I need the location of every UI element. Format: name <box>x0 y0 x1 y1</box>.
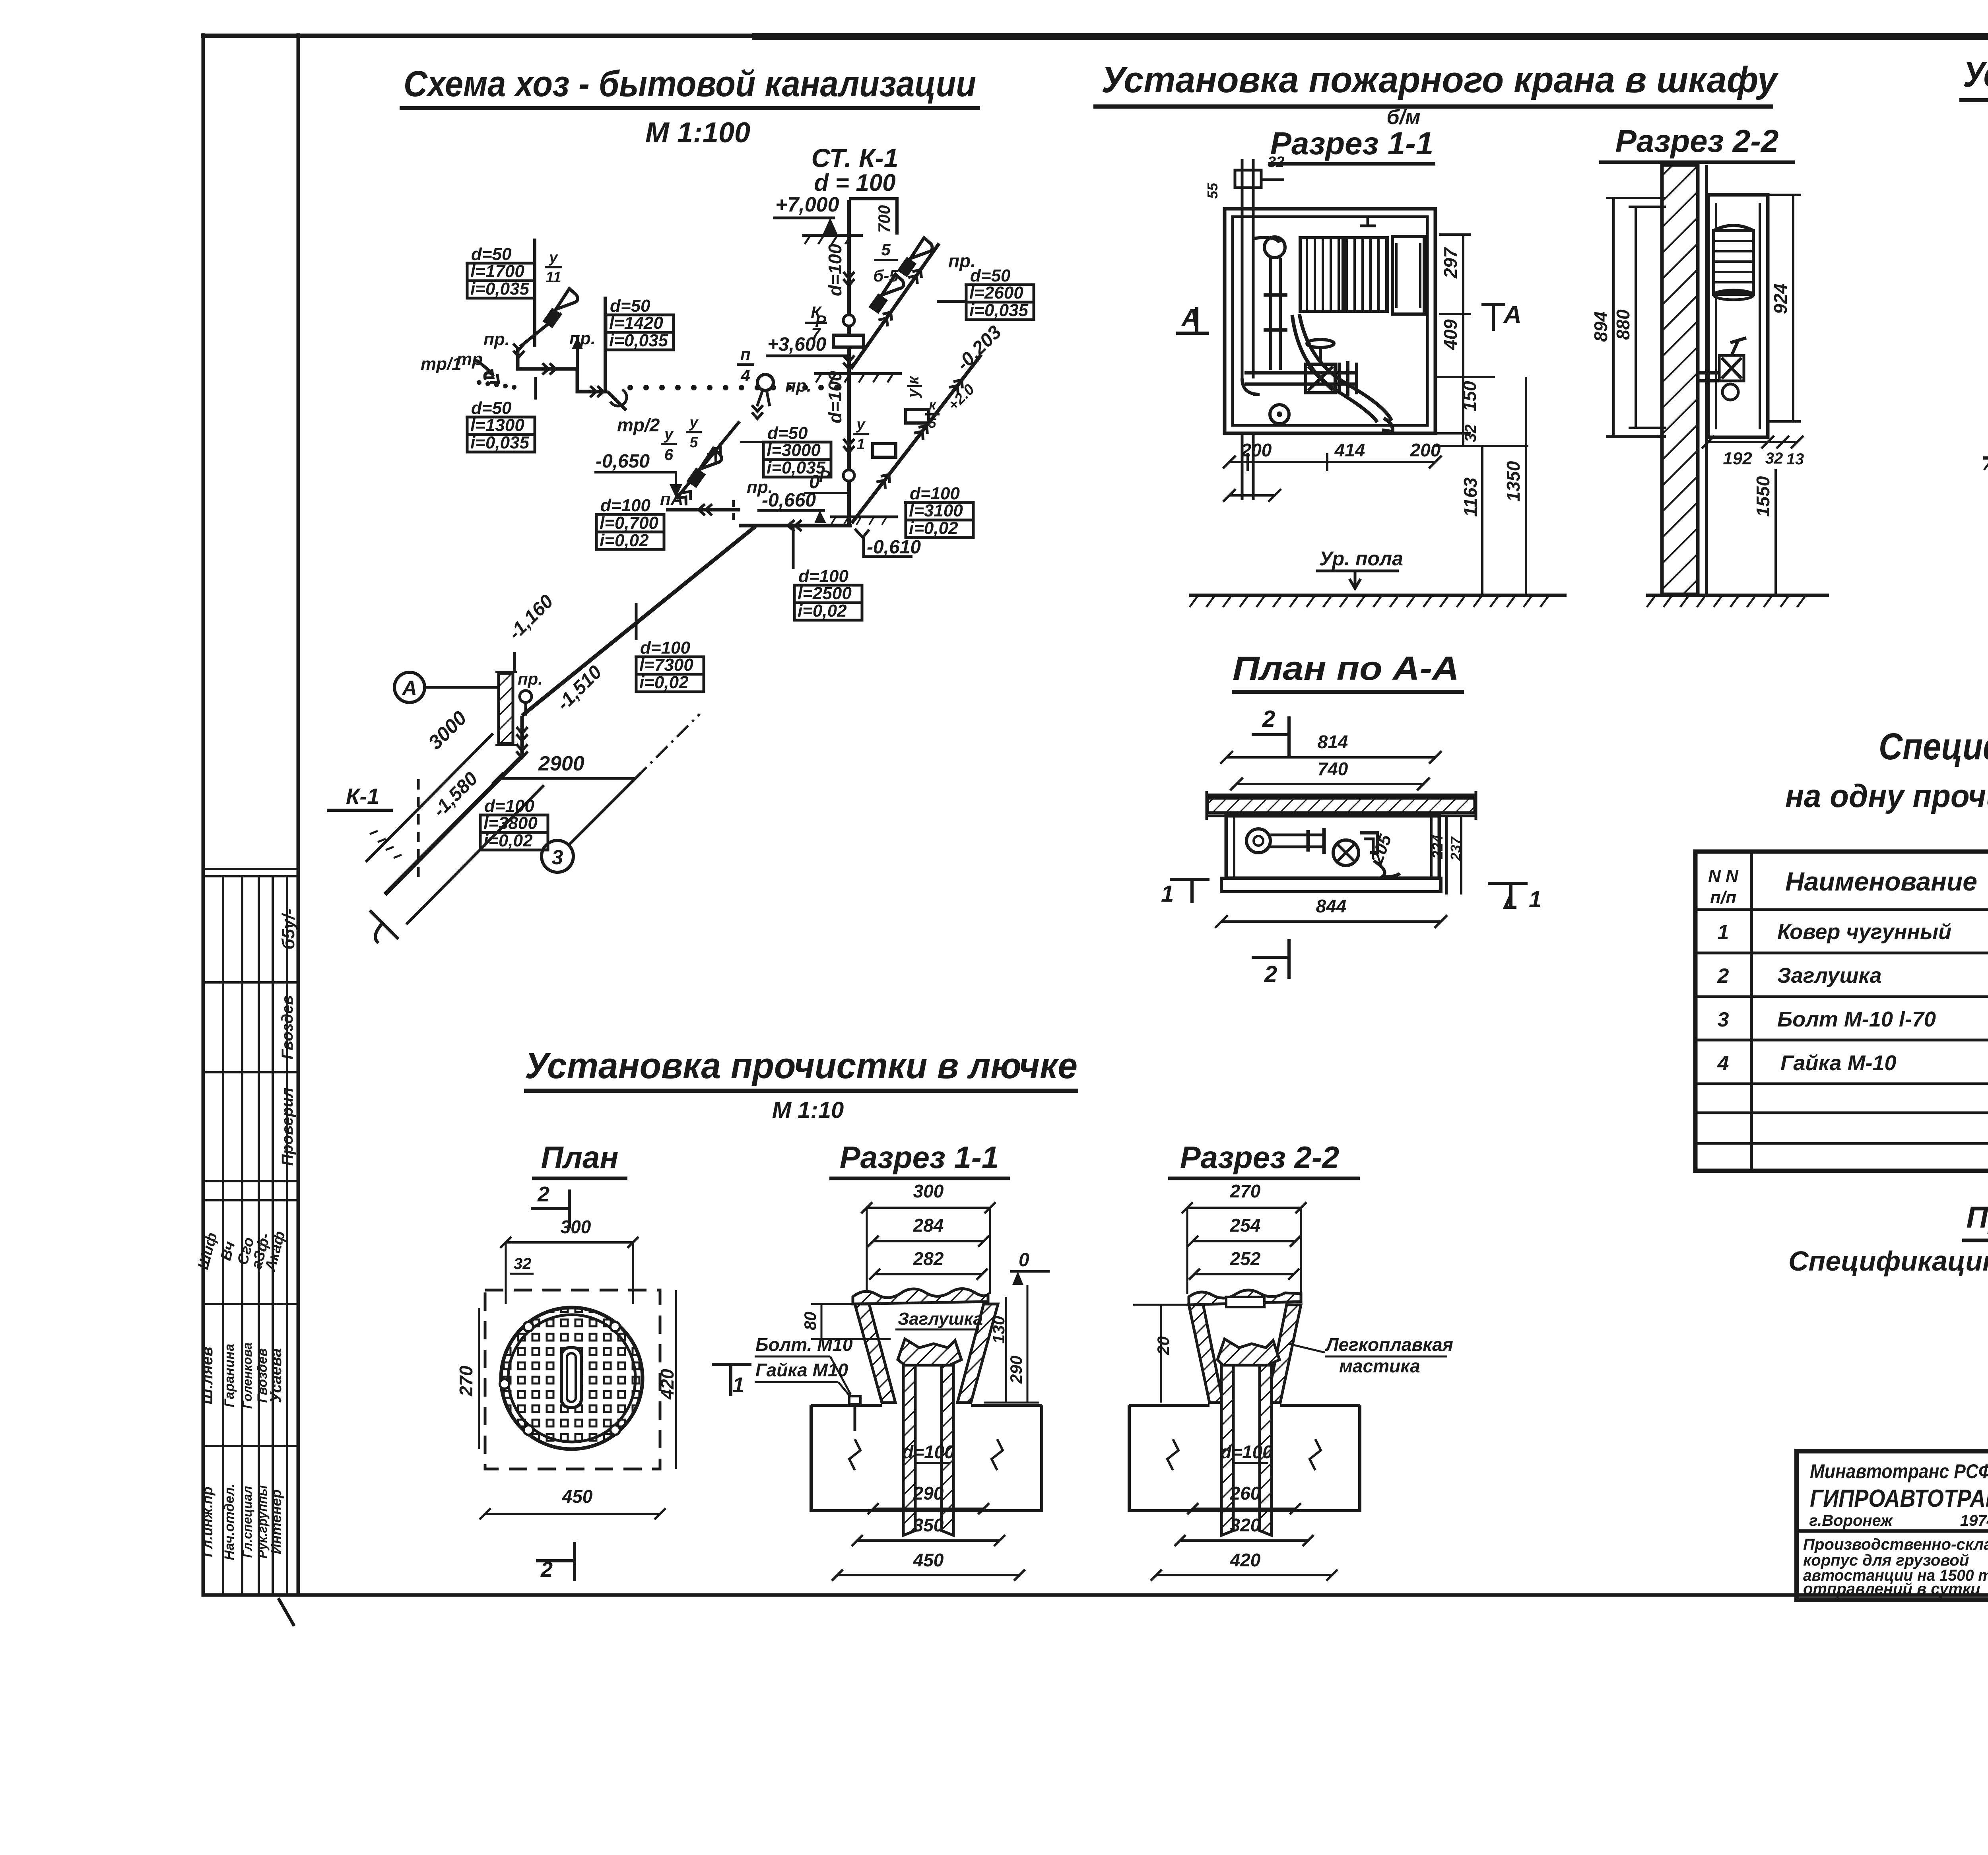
horizontal pipe to valve <box>1244 371 1356 374</box>
dots to junction <box>477 380 481 385</box>
svg-text:11: 11 <box>546 269 561 286</box>
dim 420 plan right <box>675 1290 677 1469</box>
svg-text:Спецификацию см. лист ВК: Спецификацию см. лист ВК-6 <box>1788 1246 1988 1277</box>
node 3 circle with leader <box>568 778 635 846</box>
pipe below cabinet <box>1241 433 1244 500</box>
svg-text:320: 320 <box>1230 1515 1261 1535</box>
drop and second horizontal <box>577 369 608 392</box>
bottom dims 192 32 13 <box>1708 441 1768 443</box>
main collector diagonal <box>522 526 755 716</box>
svg-text:i=0,02: i=0,02 <box>909 518 958 538</box>
svg-text:Гайка М-10: Гайка М-10 <box>1780 1051 1897 1075</box>
svg-text:А: А <box>1503 301 1522 328</box>
svg-text:814: 814 <box>1318 732 1348 752</box>
trench line left <box>366 733 493 862</box>
svg-text:l=1700: l=1700 <box>470 262 524 281</box>
svg-text:844: 844 <box>1316 896 1347 916</box>
floor line level 0 <box>830 516 898 518</box>
dim box 700 <box>849 199 897 235</box>
cabinet inner box <box>1233 217 1427 425</box>
svg-text:2: 2 <box>1717 964 1729 988</box>
svg-text:l=1420: l=1420 <box>609 313 663 333</box>
strip row dividers <box>203 981 298 984</box>
revision box on stack <box>833 335 864 347</box>
floor line level 3.600 <box>814 372 902 375</box>
svg-text:290: 290 <box>1007 1356 1025 1384</box>
strip bottom signature squiggle <box>278 1598 294 1626</box>
svg-text:Болт М-10 l-70: Болт М-10 l-70 <box>1777 1007 1936 1031</box>
hatch ticks on trench <box>370 831 378 834</box>
svg-text:Болт. М10: Болт. М10 <box>755 1334 853 1355</box>
valve handwheel <box>1319 347 1322 364</box>
dashed square <box>485 1290 660 1469</box>
svg-text:А: А <box>401 677 417 700</box>
svg-text:у: у <box>548 249 558 266</box>
fraction p/4 <box>737 345 754 385</box>
elbow fitting upper <box>1264 237 1285 258</box>
fixtures above -0.650 <box>689 448 722 486</box>
svg-text:тр/1: тр/1 <box>421 354 462 374</box>
svg-text:192: 192 <box>1723 449 1752 468</box>
frame outer left border <box>202 35 205 1595</box>
svg-text:Разрез 1-1: Разрез 1-1 <box>1270 126 1434 161</box>
cabinet plan box <box>1226 816 1439 878</box>
callout d50-l1700 <box>466 244 535 299</box>
cabinet side box <box>1708 195 1768 437</box>
wall strip plan <box>1207 794 1476 797</box>
ground line C <box>1983 456 1988 460</box>
extinguisher box <box>1392 237 1424 314</box>
svg-text:200: 200 <box>1410 440 1441 460</box>
svg-text:1: 1 <box>1718 921 1729 944</box>
svg-text:i=0,035: i=0,035 <box>609 331 668 350</box>
callout d50-l2600 <box>965 266 1034 320</box>
svg-text:Интенер: Интенер <box>268 1490 284 1554</box>
svg-text:55: 55 <box>1204 182 1221 199</box>
svg-text:ГИПРОАВТОТРАНС: ГИПРОАВТОТРАНС <box>1810 1485 1988 1512</box>
vent riser with pr <box>576 337 579 369</box>
svg-text:l=2600: l=2600 <box>969 283 1023 303</box>
svg-text:252: 252 <box>1230 1248 1261 1269</box>
short branch diagonal above -0.650 <box>676 421 740 499</box>
svg-text:l=0,700: l=0,700 <box>600 513 659 533</box>
svg-text:d=100: d=100 <box>798 567 849 586</box>
hose shelf hatched left <box>1300 238 1343 311</box>
right dims 297 409 150 32 <box>1439 233 1471 236</box>
fire valve body <box>1308 367 1333 390</box>
frame bottom border <box>203 1593 1988 1597</box>
dims left 894 880 <box>1612 198 1615 437</box>
svg-text:450: 450 <box>913 1550 944 1570</box>
svg-text:740: 740 <box>1318 759 1348 779</box>
frame top border <box>203 34 1988 38</box>
svg-text:Ковер чугунный: Ковер чугунный <box>1777 920 1951 944</box>
svg-text:d=50: d=50 <box>970 266 1011 285</box>
svg-text:у: у <box>856 416 866 433</box>
svg-text:Заглушка: Заглушка <box>1777 964 1882 988</box>
revision box branch2 b <box>873 444 896 457</box>
outfall diagonal <box>385 756 522 895</box>
cabinet outer box <box>1225 209 1435 433</box>
svg-text:3: 3 <box>552 846 563 869</box>
dotted line <box>627 385 633 390</box>
callout d100 l7300 <box>635 603 638 640</box>
svg-text:i=0,02: i=0,02 <box>483 831 533 850</box>
svg-text:32: 32 <box>1462 425 1479 442</box>
fixture umyvalnik 11 <box>545 289 578 326</box>
svg-text:2: 2 <box>1264 961 1277 987</box>
svg-text:Ур. пола: Ур. пола <box>1319 547 1403 570</box>
svg-text:у|к: у|к <box>905 376 922 398</box>
svg-text:4: 4 <box>1717 1052 1729 1075</box>
svg-text:i=0,02: i=0,02 <box>639 673 689 692</box>
svg-text:+7,000: +7,000 <box>775 193 839 216</box>
svg-text:282: 282 <box>913 1248 944 1269</box>
manhole cover circle <box>501 1308 643 1449</box>
svg-text:d=50: d=50 <box>767 423 808 443</box>
svg-text:п/п: п/п <box>1710 888 1736 907</box>
svg-text:13: 13 <box>1786 450 1804 468</box>
svg-text:+3,600: +3,600 <box>767 334 826 355</box>
trench line right <box>406 785 544 924</box>
fixture at dotted end <box>757 374 773 390</box>
svg-text:150: 150 <box>1459 381 1480 411</box>
local horizontal pipe piece <box>666 508 740 512</box>
wall column hatched <box>1662 165 1698 594</box>
svg-text:Спецификация: Спецификация <box>1879 726 1988 768</box>
svg-text:924: 924 <box>1770 283 1791 314</box>
cover top wavy band <box>853 1288 988 1304</box>
frame top border smudge <box>755 33 1988 40</box>
svg-text:Гаранина: Гаранина <box>222 1344 237 1407</box>
spec table grid <box>1695 852 1988 1171</box>
svg-text:5: 5 <box>881 240 891 259</box>
svg-text:i=0,02: i=0,02 <box>600 531 649 550</box>
svg-text:894: 894 <box>1590 311 1611 342</box>
svg-text:d=100: d=100 <box>902 1442 955 1462</box>
horizontal waste pipe <box>518 347 577 369</box>
callout d50-l1300 <box>466 398 535 452</box>
svg-text:300: 300 <box>913 1181 944 1201</box>
dim chain bottom <box>1229 461 1435 463</box>
cover band 2-2 <box>1189 1290 1301 1305</box>
fixture on branch 1 <box>871 274 904 312</box>
svg-text:1550: 1550 <box>1753 476 1773 517</box>
svg-text:отправлений в сутки: отправлений в сутки <box>1803 1580 1980 1598</box>
svg-text:на одну прочистку в лючке: на одну прочистку в лючке <box>1785 778 1988 814</box>
slab <box>811 1405 1042 1511</box>
level -0.610 flag <box>855 529 869 537</box>
trench end cap <box>370 910 398 943</box>
dims right 130 290 rotated <box>1005 1297 1007 1403</box>
vertical dim 1163 <box>1481 446 1483 594</box>
strip column lines <box>222 876 224 1595</box>
svg-text:700: 700 <box>875 205 893 233</box>
svg-text:32: 32 <box>1765 450 1783 467</box>
hose roll side view <box>1714 231 1753 294</box>
svg-text:Голенкова: Голенкова <box>240 1343 254 1409</box>
svg-text:-0,610: -0,610 <box>867 537 921 558</box>
hose curved down <box>1299 314 1392 421</box>
dashed drop to collector <box>732 500 735 525</box>
svg-text:мастика: мастика <box>1339 1356 1420 1376</box>
svg-text:Производственно-складск.: Производственно-складск. <box>1803 1536 1988 1553</box>
pipe walls <box>903 1365 915 1535</box>
svg-text:1350: 1350 <box>1503 461 1524 502</box>
svg-text:d=100: d=100 <box>640 638 691 658</box>
svg-text:d=100: d=100 <box>825 244 845 296</box>
dim 80 left rotated <box>821 1304 823 1339</box>
svg-text:300: 300 <box>561 1217 591 1237</box>
svg-text:d=50: d=50 <box>471 398 512 418</box>
svg-text:l=2500: l=2500 <box>798 584 852 603</box>
floor line level 7.000 <box>802 234 863 237</box>
strip rotated texts <box>195 908 298 1560</box>
svg-text:270: 270 <box>1230 1181 1261 1201</box>
housing walls trapezoid <box>855 1304 895 1403</box>
svg-text:пр.: пр. <box>569 329 596 348</box>
svg-text:297: 297 <box>1440 247 1461 279</box>
svg-text:d=100: d=100 <box>600 496 651 515</box>
svg-text:130: 130 <box>989 1316 1008 1344</box>
vertical dim 1550 <box>1774 469 1777 594</box>
svg-text:409: 409 <box>1440 319 1461 350</box>
svg-text:270: 270 <box>456 1366 476 1397</box>
vertical feed to valve <box>1269 258 1272 370</box>
branch pipe lower right <box>852 355 981 523</box>
riser inside cabinet <box>1241 217 1244 378</box>
svg-text:l=1300: l=1300 <box>470 415 524 435</box>
riser line of callout 1300 <box>534 377 537 400</box>
frame inner left border <box>297 35 300 1595</box>
svg-text:тр: тр <box>456 349 483 369</box>
hose nozzle bottom <box>1382 418 1393 432</box>
svg-text:d = 100: d = 100 <box>814 169 895 196</box>
svg-text:План по А-А: План по А-А <box>1233 650 1459 687</box>
svg-text:Гл.специал: Гл.специал <box>240 1486 254 1558</box>
svg-text:2: 2 <box>537 1182 549 1206</box>
svg-text:М 1:100: М 1:100 <box>645 117 750 149</box>
callout d100-l3800 <box>479 796 548 850</box>
svg-text:тр/2: тр/2 <box>617 415 660 435</box>
drop at wall <box>520 716 524 756</box>
svg-text:l=3100: l=3100 <box>909 501 963 520</box>
svg-text:l=7300: l=7300 <box>639 655 693 675</box>
svg-text:d=50: d=50 <box>610 296 650 316</box>
svg-text:260: 260 <box>1230 1483 1261 1504</box>
svg-text:254: 254 <box>1230 1215 1261 1236</box>
trap symbol tr/2 <box>608 392 626 410</box>
svg-text:пр.: пр. <box>518 669 543 688</box>
svg-text:Ш.ляев: Ш.ляев <box>198 1347 216 1404</box>
slab break zigzags <box>849 1439 860 1470</box>
svg-text:Разрез 2-2: Разрез 2-2 <box>1180 1140 1339 1175</box>
svg-text:80: 80 <box>801 1312 819 1330</box>
svg-text:d=100: d=100 <box>825 371 845 423</box>
svg-text:880: 880 <box>1613 309 1633 340</box>
svg-text:l=3800: l=3800 <box>483 813 538 833</box>
leader for 3000 callout <box>740 441 763 443</box>
svg-text:350: 350 <box>913 1515 944 1535</box>
svg-text:20: 20 <box>1154 1336 1173 1355</box>
svg-text:-0,650: -0,650 <box>596 451 650 472</box>
svg-text:п: п <box>740 345 751 363</box>
svg-text:1974г: 1974г <box>1960 1512 1988 1529</box>
collector horizontal <box>739 524 852 528</box>
svg-text:Установка прочистки в люч: Установка прочистки в лючке <box>525 1046 1077 1086</box>
title block grid <box>1797 1451 1988 1600</box>
cover bolts <box>524 1425 533 1435</box>
branch pipe upper right <box>851 243 939 369</box>
svg-text:Установка поливочного: Установка поливочного <box>1963 55 1988 95</box>
dim right 924 <box>1792 195 1794 421</box>
svg-text:420: 420 <box>657 1369 678 1400</box>
svg-text:у: у <box>664 425 674 443</box>
vertical dim 1350 <box>1525 377 1527 594</box>
svg-text:пр.: пр. <box>747 477 773 497</box>
svg-text:б-5: б-5 <box>873 266 899 285</box>
svg-text:Примечание: Примечание <box>1966 1201 1988 1234</box>
svg-text:1163: 1163 <box>1460 477 1481 517</box>
floor line razrez 2-2 <box>1646 594 1829 597</box>
svg-text:1: 1 <box>1161 881 1174 907</box>
link to callout 2600 <box>937 300 966 303</box>
strip top lines <box>203 868 298 870</box>
supply pipe above cabinet <box>1241 159 1244 217</box>
svg-text:6: 6 <box>664 446 674 464</box>
socket cone 2-2 <box>1217 1339 1279 1365</box>
svg-text:d=100: d=100 <box>1220 1442 1273 1462</box>
svg-text:5: 5 <box>689 434 698 451</box>
riser at callout 1420 <box>604 297 607 392</box>
svg-text:г.Воронеж: г.Воронеж <box>1809 1512 1893 1529</box>
svg-text:Разрез 2-2: Разрез 2-2 <box>1615 123 1779 159</box>
callout d100-l3100 <box>904 484 973 538</box>
svg-text:Легкоплавкая: Легкоплавкая <box>1325 1334 1453 1355</box>
svg-text:2900: 2900 <box>538 752 584 775</box>
svg-text:Р: Р <box>815 312 827 330</box>
svg-text:СТ. К-1: СТ. К-1 <box>812 143 899 173</box>
wall section bar on diagonal <box>499 673 513 743</box>
svg-text:Гвоздев: Гвоздев <box>279 995 296 1059</box>
node A circle <box>394 672 425 702</box>
svg-text:1: 1 <box>856 436 865 453</box>
bolt left <box>849 1396 860 1404</box>
pipe top fitting <box>1235 170 1261 188</box>
svg-text:К-1: К-1 <box>346 784 379 809</box>
callout d100-l7300 <box>635 638 704 692</box>
callout d50-l3000 <box>762 423 831 477</box>
fixture on branch 1b <box>899 238 932 275</box>
callout d100-l2500 <box>793 567 862 621</box>
svg-text:1: 1 <box>1529 887 1541 912</box>
hose shelf hatched right <box>1345 238 1388 311</box>
svg-text:4: 4 <box>740 366 750 385</box>
svg-text:3: 3 <box>1718 1008 1729 1031</box>
dim 20 left 2-2 <box>1160 1305 1162 1403</box>
cover inner recess <box>1226 1297 1264 1307</box>
revision К/7 <box>805 303 827 343</box>
svg-text:План: План <box>541 1140 618 1175</box>
dim 270 plan left <box>478 1308 480 1449</box>
dashed vertical near outfall <box>417 779 420 881</box>
svg-text:2: 2 <box>1262 706 1275 732</box>
pipe walls 2-2 <box>1221 1365 1233 1535</box>
svg-text:32: 32 <box>514 1255 532 1273</box>
leader to callout 2500 <box>792 526 795 569</box>
svg-text:М 1:10: М 1:10 <box>772 1097 844 1123</box>
svg-text:Минавтотранс РСФСР: Минавтотранс РСФСР <box>1810 1460 1988 1482</box>
svg-text:Заглушка: Заглушка <box>898 1309 983 1329</box>
flange marks <box>1264 293 1287 297</box>
slab 2-2 <box>1129 1405 1360 1511</box>
svg-text:Схема хоз - бытовой канализ: Схема хоз - бытовой канализации <box>404 64 976 104</box>
svg-text:i=0,035: i=0,035 <box>969 301 1029 320</box>
svg-text:d=100: d=100 <box>484 796 535 816</box>
svg-text:у: у <box>689 414 699 431</box>
svg-text:284: 284 <box>913 1215 944 1236</box>
svg-text:0: 0 <box>1019 1250 1029 1271</box>
svg-text:Наименование: Наименование <box>1785 867 1977 896</box>
svg-text:420: 420 <box>1230 1550 1261 1570</box>
hose coupling <box>1338 363 1341 394</box>
svg-text:пр.: пр. <box>785 376 812 396</box>
svg-text:б5у/-: б5у/- <box>279 908 298 949</box>
svg-text:d=50: d=50 <box>471 244 512 264</box>
floor line razrez 1-1 <box>1189 594 1567 597</box>
callout d100-l0.700 <box>595 496 664 550</box>
svg-text:к: к <box>929 398 936 413</box>
callout d50-l1420 <box>604 296 674 350</box>
svg-text:i=0,035: i=0,035 <box>767 458 826 477</box>
svg-text:Разрез 1-1: Разрез 1-1 <box>840 1140 999 1175</box>
svg-text:200: 200 <box>1241 440 1272 460</box>
svg-text:224: 224 <box>1429 835 1446 859</box>
base plate plan <box>1221 878 1441 892</box>
svg-text:5: 5 <box>929 416 937 431</box>
svg-text:414: 414 <box>1334 440 1365 460</box>
elbow low left <box>1242 378 1260 394</box>
valve in side cabinet <box>1722 358 1741 378</box>
valve assembly in plan <box>1246 829 1270 853</box>
svg-text:1: 1 <box>732 1373 744 1397</box>
svg-text:Нач.отдел.: Нач.отдел. <box>222 1484 237 1560</box>
svg-text:Рук.группы: Рук.группы <box>255 1485 270 1558</box>
svg-text:i=0,035: i=0,035 <box>470 279 530 299</box>
svg-text:Усаева: Усаева <box>267 1348 285 1403</box>
pipe through wall <box>1698 371 1719 374</box>
svg-text:i=0,035: i=0,035 <box>470 433 530 452</box>
svg-text:Установка пожарного крана: Установка пожарного крана в шкафу <box>1101 60 1779 100</box>
dash-dot continuation <box>635 714 700 778</box>
svg-text:d=100: d=100 <box>910 484 960 503</box>
svg-text:Проверил: Проверил <box>279 1087 296 1166</box>
right small dims <box>1445 816 1448 895</box>
revision box branch2 a <box>906 409 929 423</box>
svg-text:290: 290 <box>913 1483 944 1504</box>
svg-text:l=3000: l=3000 <box>767 440 821 460</box>
svg-text:N N: N N <box>1708 866 1739 886</box>
svg-text:237: 237 <box>1448 836 1464 861</box>
svg-text:i=0,02: i=0,02 <box>798 601 847 621</box>
riser at callout 1700 <box>533 239 536 347</box>
fraction u/b-5 <box>873 240 899 285</box>
svg-text:Гл.инж.пр: Гл.инж.пр <box>199 1486 215 1557</box>
stack CT K-1 riser <box>847 200 851 526</box>
drain diagonal to junction <box>520 313 561 347</box>
svg-text:32: 32 <box>1268 154 1284 171</box>
svg-text:пр.: пр. <box>483 330 510 349</box>
